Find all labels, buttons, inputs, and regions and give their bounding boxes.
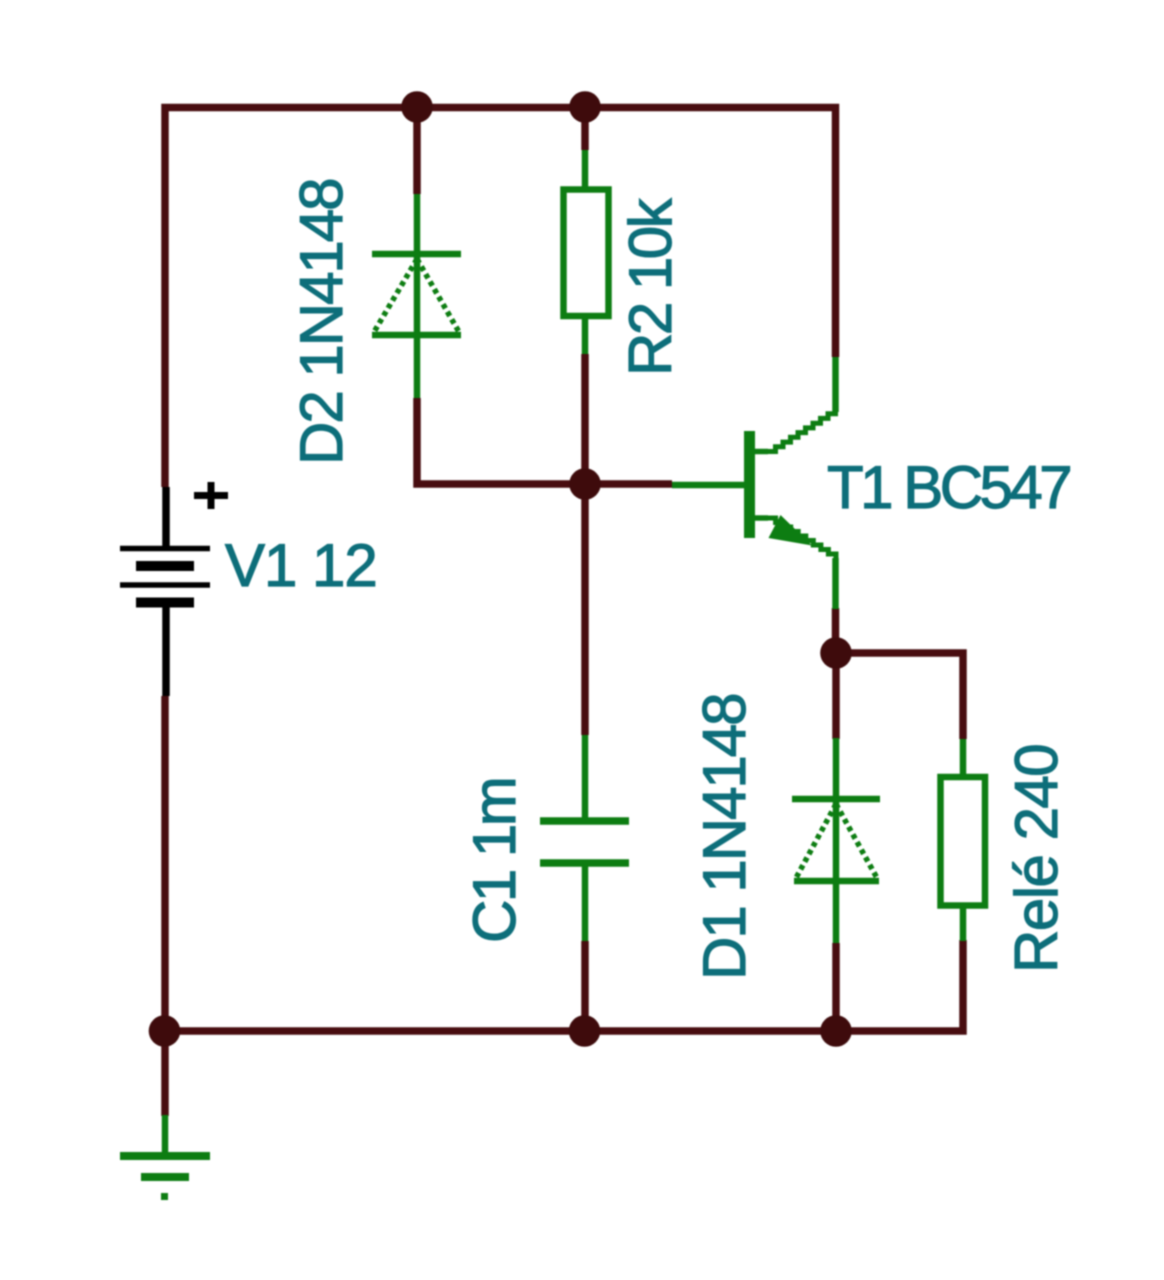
svg-text:D2 1N4148: D2 1N4148 [288,179,355,465]
svg-text:V1 12: V1 12 [225,532,377,599]
svg-text:Relé 240: Relé 240 [1003,745,1070,973]
svg-text:T1 BC547: T1 BC547 [827,454,1070,521]
svg-text:R2 10k: R2 10k [617,197,684,376]
svg-text:D1 1N4148: D1 1N4148 [691,694,758,980]
svg-text:C1 1m: C1 1m [461,779,528,943]
